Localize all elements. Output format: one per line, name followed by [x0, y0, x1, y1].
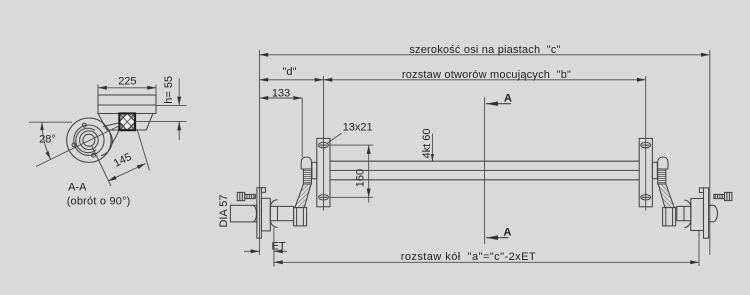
svg-text:"d": "d" — [283, 66, 297, 78]
svg-text:28°: 28° — [39, 134, 56, 146]
svg-text:145: 145 — [112, 151, 134, 170]
svg-text:4kt 60: 4kt 60 — [421, 129, 433, 159]
svg-text:13x21: 13x21 — [343, 122, 373, 134]
svg-text:h= 55: h= 55 — [163, 76, 175, 104]
svg-text:225: 225 — [118, 76, 136, 88]
svg-text:A: A — [504, 93, 512, 105]
svg-text:DIA 57: DIA 57 — [218, 194, 230, 227]
svg-text:A: A — [504, 227, 512, 239]
svg-text:133: 133 — [272, 88, 290, 100]
svg-text:rozstaw otworów mocujących "b: rozstaw otworów mocujących "b" — [402, 69, 571, 81]
svg-text:160: 160 — [355, 169, 367, 187]
svg-text:(obrót o 90°): (obrót o 90°) — [67, 195, 131, 207]
svg-text:szerokość osi na piastach "c": szerokość osi na piastach "c" — [409, 44, 560, 56]
svg-text:A-A: A-A — [68, 181, 87, 193]
svg-text:rozstaw kół "a"="c"-2xET: rozstaw kół "a"="c"-2xET — [401, 251, 536, 263]
